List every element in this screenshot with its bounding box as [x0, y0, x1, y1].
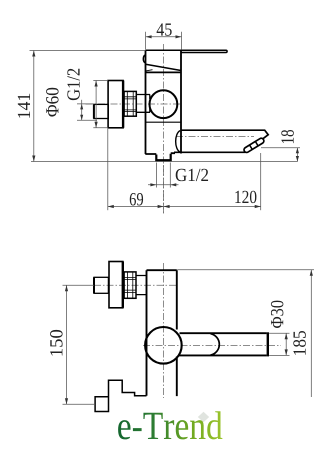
dim 18 arrows — [296, 148, 299, 162]
hex nut lower view — [124, 272, 136, 298]
dim 18 line — [296, 148, 298, 162]
dim G1/2 top arrows — [80, 104, 83, 120]
dim 150 line — [66, 285, 68, 404]
dim phi30 line — [285, 333, 287, 355]
nut inner verticals — [127, 91, 133, 116]
pipe left edge thick lower — [93, 277, 95, 293]
wire long extension line y161.5 — [31, 161, 298, 163]
dim text 185 — [293, 331, 305, 355]
dim 150 ext bottom — [63, 403, 96, 405]
dim 185 line — [310, 270, 312, 397]
dim G1/2 bottom line — [148, 184, 179, 186]
pipe lower view — [94, 277, 108, 293]
body top view — [145, 50, 181, 154]
ext spout tip — [260, 153, 262, 210]
dim G1/2 bottom ext lines — [156, 163, 170, 188]
logo sparkle — [198, 412, 209, 422]
pipe G1/2 top view — [94, 104, 108, 118]
handle wedge tick — [146, 70, 153, 71]
cartridge circle top view — [150, 90, 178, 118]
nut inner verticals lower — [127, 272, 132, 298]
dim 141 ext top — [30, 50, 146, 52]
dim 185 arrows — [310, 270, 313, 276]
inlet staircase lower view — [95, 380, 146, 411]
dim 45 arrows — [146, 35, 182, 38]
centerline ext below stub — [163, 165, 165, 215]
dim G1/2 top ext lines — [77, 104, 97, 120]
adapter piece top view — [136, 95, 150, 113]
ext wall face — [107, 129, 109, 210]
dim text G1/2 bottom — [176, 169, 208, 181]
dim 150 ext top — [63, 284, 95, 286]
centerline upper connector lower view — [94, 284, 177, 286]
handle base wedge — [146, 64, 181, 70]
spout lower view — [179, 333, 267, 355]
flange top view — [108, 81, 123, 128]
spout rounded left cap — [176, 131, 181, 153]
dim 69 120 line — [108, 206, 261, 208]
lever cap arc lower view — [211, 334, 220, 355]
dim text 120 — [235, 191, 256, 203]
dim 45 line — [146, 36, 182, 38]
dim text 141 — [18, 94, 30, 118]
adapter piece lower view — [136, 276, 147, 295]
spout end face lower view — [267, 332, 269, 356]
dim text 18 — [281, 130, 293, 143]
dim text 45 — [157, 23, 172, 35]
handle lever bar — [146, 50, 228, 52]
pipe left edge thick — [93, 104, 95, 118]
centerline spout top view — [176, 136, 254, 138]
body lower view — [147, 270, 177, 396]
dim phi60 arrows — [95, 81, 98, 128]
hex nut top view — [124, 91, 136, 116]
dim 141 line — [33, 51, 35, 162]
dim phi60 ext lines — [93, 81, 108, 128]
spout top view outline — [174, 130, 268, 152]
cartridge circle lower view — [145, 327, 182, 364]
dim 69 120 arrows — [108, 205, 261, 208]
dim phi30 arrows — [285, 333, 288, 355]
dim 45 ext lines — [146, 32, 182, 50]
dim 18 ext line — [261, 147, 300, 149]
dim 150 arrows — [65, 285, 68, 404]
centerline vertical top view — [163, 44, 165, 215]
centerline vertical lower view — [163, 263, 165, 398]
dim text G1/2 top — [67, 69, 79, 100]
flange lower view — [109, 262, 123, 308]
handle left bulge — [143, 55, 145, 63]
aerator capsule — [243, 137, 265, 153]
dim 185 ext top — [177, 269, 314, 271]
nut facet lines — [124, 97, 136, 112]
dim G1/2 top line — [81, 100, 83, 121]
dim phi30 ext lines — [269, 333, 289, 355]
dim 141 arrows — [32, 51, 35, 162]
centerline horizontal connector axis top view — [86, 103, 182, 105]
dim G1/2 bottom arrows — [150, 183, 176, 186]
body inner line below cartridge — [146, 121, 182, 123]
shower outlet stub top view — [156, 154, 170, 160]
dim text 69 — [130, 193, 143, 205]
logo text e-Trend — [118, 411, 222, 439]
centerline spout lower view — [143, 344, 281, 346]
dim phi60 line — [95, 81, 97, 128]
dim text phi30 — [271, 301, 283, 328]
nut facet lines lower — [124, 278, 136, 293]
dim text 150 — [50, 330, 62, 356]
dim text phi60 — [46, 88, 58, 117]
